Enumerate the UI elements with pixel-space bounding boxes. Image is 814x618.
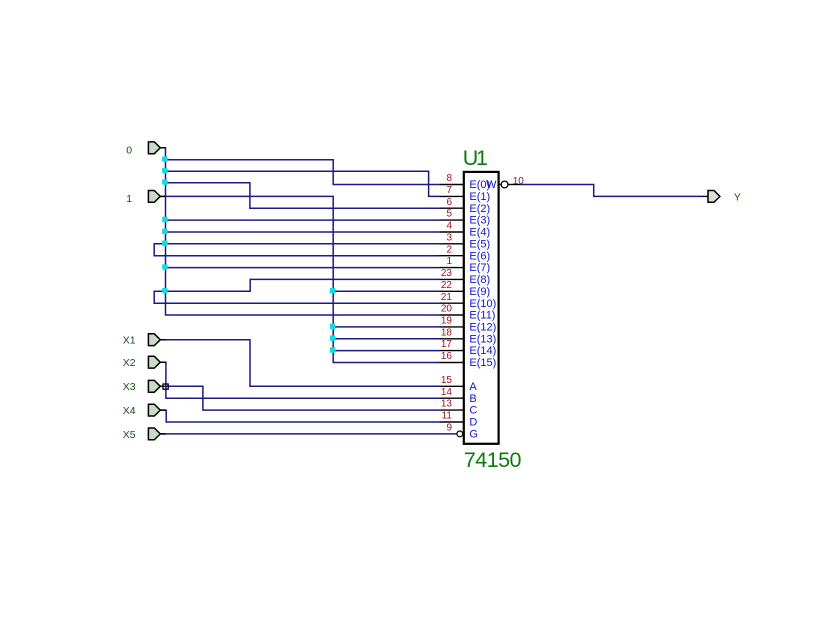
junction net1 E12: [330, 324, 336, 330]
svg-text:Y: Y: [734, 191, 741, 203]
pin stub E(13): [440, 338, 464, 340]
connector X4: [148, 404, 165, 416]
wire net1 to E(9) pin 22: [333, 290, 439, 292]
svg-text:E(10): E(10): [469, 298, 496, 310]
wire net0 to E(8) pin 23: [166, 279, 440, 291]
junction net0 E2: [162, 179, 168, 185]
svg-text:E(4): E(4): [469, 227, 490, 239]
svg-text:A: A: [469, 381, 477, 393]
pin stub A: [440, 385, 464, 387]
svg-text:17: 17: [441, 339, 453, 350]
wire net0 to E(7) pin 1: [166, 267, 440, 269]
wire net0 to E(2) pin 6: [166, 183, 440, 209]
svg-text:20: 20: [441, 304, 453, 315]
svg-text:W: W: [486, 179, 497, 191]
connector X1: [148, 334, 165, 346]
connector constant 0: [148, 142, 165, 154]
svg-text:19: 19: [441, 316, 453, 327]
wire net0 to E(5) pin 3: [166, 243, 440, 245]
junction net1 E14: [330, 347, 336, 353]
wire X4 to D pin 11: [160, 410, 439, 422]
wire X3 to C pin 13: [160, 386, 439, 410]
svg-text:X2: X2: [123, 357, 136, 369]
wire net0 to E(4) pin 4: [166, 231, 440, 233]
svg-text:U1: U1: [463, 146, 487, 170]
svg-text:C: C: [469, 405, 477, 417]
pin stub E(9): [440, 290, 464, 292]
svg-text:7: 7: [446, 185, 452, 196]
svg-text:E(1): E(1): [469, 191, 490, 203]
connector X5: [148, 428, 165, 440]
G pin inversion bubble: [457, 431, 463, 437]
junction net0 E0: [162, 156, 168, 162]
svg-text:3: 3: [446, 232, 452, 243]
svg-text:14: 14: [441, 387, 453, 398]
pin stub E(11): [440, 314, 464, 316]
IC U1 74150 body: [464, 172, 499, 444]
svg-text:X3: X3: [123, 381, 136, 393]
pin stub E(8): [440, 278, 464, 280]
svg-text:B: B: [469, 393, 476, 405]
junction net0 E4: [162, 229, 168, 235]
svg-text:23: 23: [441, 268, 453, 279]
pin stub E(10): [440, 302, 464, 304]
pin stub E(0): [440, 184, 464, 186]
svg-text:X4: X4: [123, 405, 136, 417]
junction net0 E7: [162, 264, 168, 270]
svg-text:E(3): E(3): [469, 215, 490, 227]
svg-text:G: G: [469, 429, 478, 441]
wire W output to connector Y: [520, 185, 704, 197]
svg-text:E(13): E(13): [469, 333, 496, 345]
wire X1 to A pin 15: [160, 340, 439, 387]
svg-text:E(5): E(5): [469, 238, 490, 250]
svg-text:1: 1: [446, 256, 452, 267]
svg-text:13: 13: [441, 399, 453, 410]
pin stub E(7): [440, 267, 464, 269]
svg-text:5: 5: [446, 209, 452, 220]
svg-text:D: D: [469, 417, 477, 429]
svg-text:E(7): E(7): [469, 262, 490, 274]
svg-text:X1: X1: [123, 335, 136, 347]
pin stub E(2): [440, 207, 464, 209]
junction net0 E3: [162, 217, 168, 223]
wire net0 to E(1) pin 7: [166, 171, 440, 196]
svg-text:0: 0: [126, 145, 132, 157]
svg-text:E(8): E(8): [469, 274, 490, 286]
svg-text:E(15): E(15): [469, 357, 496, 369]
wire net1 to E(14) pin 17: [333, 350, 439, 352]
node square at X3 tip: [163, 384, 168, 389]
pin stub E(5): [440, 243, 464, 245]
W output bubble pin 10: [499, 184, 501, 186]
svg-text:E(14): E(14): [469, 345, 496, 357]
svg-text:E(11): E(11): [469, 310, 495, 322]
junction net0 E1: [162, 168, 168, 174]
junction net1 E13: [330, 335, 336, 341]
svg-text:6: 6: [446, 197, 452, 208]
svg-text:8: 8: [446, 173, 452, 184]
wire net0 bus from connector 0 down to E(11) pin 20: [160, 148, 439, 315]
wire X2 to B pin 14: [160, 362, 439, 398]
svg-text:21: 21: [441, 292, 453, 303]
junction net0 E5/E6: [162, 240, 168, 246]
wire net0 to E(0) pin 8: [166, 160, 440, 185]
svg-text:16: 16: [441, 351, 453, 362]
wire net0 to E(3) pin 5: [166, 219, 440, 221]
svg-text:18: 18: [441, 327, 453, 338]
svg-text:E(9): E(9): [469, 286, 490, 298]
svg-text:22: 22: [441, 280, 453, 291]
wire net0 detour to E(6) pin 2: [154, 244, 439, 256]
svg-text:X5: X5: [123, 429, 136, 441]
junction net0 E8/E10: [162, 288, 168, 294]
pin stub D: [440, 421, 464, 423]
svg-text:E(12): E(12): [469, 322, 496, 334]
svg-text:1: 1: [126, 193, 132, 205]
connector constant 1: [148, 191, 165, 203]
svg-text:9: 9: [446, 423, 452, 434]
connector X3: [148, 380, 163, 392]
pin stub E(12): [440, 326, 464, 328]
wire net0 detour to E(10) pin 21: [154, 291, 439, 303]
wire net1 to E(12) pin 19: [333, 326, 439, 328]
connector X2: [148, 356, 165, 368]
svg-text:74150: 74150: [464, 448, 522, 472]
wire net1 from connector 1 down to E(15) pin 16: [160, 196, 439, 362]
pin stub C: [440, 409, 464, 411]
pin stub E(4): [440, 231, 464, 233]
junction net1 E9: [330, 288, 336, 294]
svg-text:11: 11: [442, 411, 453, 422]
pin stub E(1): [440, 195, 464, 197]
pin stub B: [440, 397, 464, 399]
wire X5 to G pin 9: [160, 433, 457, 435]
svg-text:2: 2: [446, 244, 452, 255]
svg-text:15: 15: [441, 375, 453, 386]
svg-text:E(6): E(6): [469, 250, 490, 262]
pin stub E(14): [440, 350, 464, 352]
svg-text:10: 10: [513, 176, 525, 187]
pin stub E(6): [440, 255, 464, 257]
svg-text:4: 4: [446, 221, 452, 232]
connector Y: [703, 191, 720, 203]
pin stub E(3): [440, 219, 464, 221]
wire net1 to E(13) pin 18: [333, 338, 439, 340]
svg-text:E(2): E(2): [469, 203, 490, 215]
pin stub E(15): [440, 362, 464, 364]
